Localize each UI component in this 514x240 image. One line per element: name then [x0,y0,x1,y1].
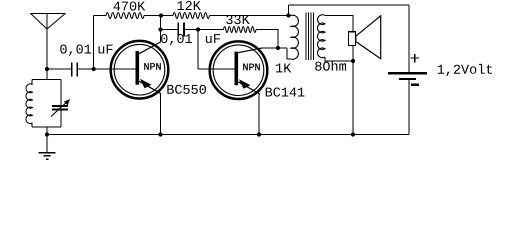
wire top row left [94,15,106,17]
transistor Q2 BC141 [210,41,268,99]
wire C2 right to node D [185,29,198,31]
wire node F to rail [352,61,354,135]
label R3 value 33K [226,15,250,24]
resistor R3 33K [224,27,257,33]
node C R1/R2/Q1-collector junction [159,13,163,17]
battery B1 negative plate [399,78,416,80]
wire node C2 left [161,29,178,31]
label C2 unit [206,34,220,43]
ground rail junction at tank [45,132,49,136]
wire node A to C1 [47,68,71,70]
node F secondary/speaker junction [351,59,355,63]
node E R3/Q2-collector/primary junction [276,46,280,50]
capacitor C2 0,01uF [178,22,185,36]
transformer T1 secondary winding [317,15,325,58]
label C1 value [60,45,91,56]
wire supply vertical [288,5,290,16]
wire speaker bottom [352,46,354,62]
label C1 unit [99,45,113,54]
node B C1/R1/Q1-base junction [92,67,96,71]
capacitor C1 0,01uF [71,63,78,77]
node VCC R2/primary/battery junction [286,13,290,17]
label battery 1,2Volt [438,64,492,76]
resistor R2 12K [173,13,210,19]
wire tank top [32,79,61,81]
wire Q1 emitter to rail [160,94,162,135]
antenna [30,13,65,79]
battery B1 positive plate [388,72,427,75]
wire R1 to node C [144,15,173,17]
wire ground rail [47,134,409,136]
ground rail junction at speaker [351,132,355,136]
wire node B to Q1 base [94,68,136,70]
wire supply top [289,4,410,6]
wire tank bottom to rail [46,127,48,135]
battery B1 plus sign [411,54,419,63]
ground [39,135,56,160]
wire battery minus to rail [408,80,410,135]
transformer T1 primary winding [289,15,299,59]
wire node E to T1 primary bottom [287,48,291,59]
wire node D down to Q2 base [198,30,235,70]
wire node D to R3 [198,29,224,31]
wire Q1 collector vertical [160,16,162,43]
label Q1 type BC550 [167,85,206,94]
wire R1 feedback vertical [93,16,95,70]
wire secondary bottom to node F [325,57,353,61]
label Q2 type BC141 [266,88,305,97]
wire Q2 collector to node E [262,47,287,49]
node D C2/R3/Q2-base junction [196,27,200,31]
label R2 value 12K [178,1,201,10]
speaker LS1 [349,16,381,59]
ground rail junction at Q1 emitter [158,132,162,136]
node C2-left junction [158,27,162,31]
wire R3 right corner down [256,30,278,49]
wire battery plus drop [408,5,410,72]
node A antenna/tank/C1 junction [45,67,49,71]
label speaker 8Ohm [315,61,346,71]
wire C1 to node B [78,68,94,70]
label T1 primary 1K [276,64,291,73]
battery B1 minus sign [411,84,419,86]
wire Q2 emitter to rail [258,95,260,135]
label R1 value 470K [114,2,146,11]
ground rail junction at Q2 emitter [257,132,261,136]
wire tank bottom [32,126,61,128]
label C2 value [161,34,192,45]
resistor R1 470K [106,13,144,19]
variable capacitor VC1 [51,80,70,128]
wire R2 to supply node [210,15,289,17]
inductor L1 tank coil [26,80,33,128]
wire secondary top to speaker [325,16,353,32]
transformer T1 core [306,13,314,61]
transistor Q1 BC550 [111,41,169,99]
